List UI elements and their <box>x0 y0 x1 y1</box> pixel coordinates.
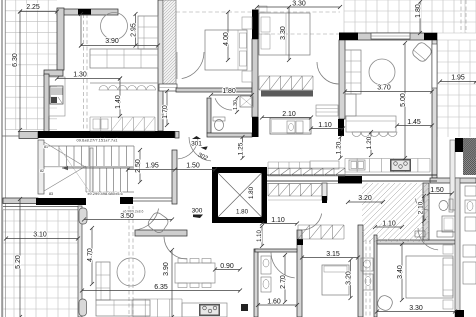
black box right shaft <box>455 138 463 152</box>
dim 1.70 hatch <box>166 91 168 125</box>
bottom-left balcony inner wall <box>78 206 82 317</box>
sofa 300 vertical <box>96 262 110 300</box>
nightstand 303 top <box>443 245 453 254</box>
kitchen side counter 301 <box>49 77 65 116</box>
dashed beam line top-right <box>258 33 432 35</box>
right edge fixtures <box>465 186 476 196</box>
dim 3.30 bottom <box>377 311 455 313</box>
bath303 door arc <box>415 198 429 210</box>
staircase break diagonals <box>44 142 87 168</box>
island counter 302 <box>346 116 396 132</box>
dim 3.40 <box>401 244 403 300</box>
entry door arc 301 <box>178 137 198 159</box>
svg-text:1.45: 1.45 <box>407 119 421 126</box>
right balcony wall <box>432 40 437 178</box>
black wall bedroom divider lower <box>252 117 259 137</box>
round table 302 <box>369 59 395 85</box>
kitchen corner bar <box>44 70 63 76</box>
staircase outline <box>44 145 134 147</box>
svg-text:2.10: 2.10 <box>418 201 425 214</box>
svg-text:3.90: 3.90 <box>105 38 119 45</box>
dashed drop lines left kitchen <box>83 14 85 131</box>
wardrobe rail dark <box>261 91 313 97</box>
armchair 300 <box>146 211 170 235</box>
kitchen counter 300 left <box>133 299 182 317</box>
svg-text:1.10: 1.10 <box>271 217 285 224</box>
kitchen sink 301 <box>93 119 100 129</box>
right band wall <box>430 178 476 183</box>
thin wall hall <box>133 197 172 199</box>
balcony tiles bottom-left <box>3 210 78 317</box>
apartment number 302 <box>196 144 213 163</box>
svg-text:09.6±8.27/7.151±7.7±1: 09.6±8.27/7.151±7.7±1 <box>76 138 118 143</box>
dim 1.50 bath303 <box>429 193 452 195</box>
svg-text:1.80: 1.80 <box>415 4 422 18</box>
stair left wall <box>38 140 44 194</box>
island chairs 302 <box>352 132 361 137</box>
closet bottom-center bedroom <box>298 225 344 239</box>
bathroom303 left wall <box>423 183 429 240</box>
bed 301 <box>205 30 247 70</box>
dim 3.20 hall303 <box>348 201 383 203</box>
dim 3.30 vertical <box>288 7 290 60</box>
staircase lower flight treads <box>86 168 127 192</box>
svg-text:1.60: 1.60 <box>267 299 281 306</box>
door arc bedroom 300 <box>302 214 322 231</box>
stair rail <box>90 148 93 192</box>
door arc 303 entry <box>418 228 438 250</box>
dim 3.30 top <box>257 6 340 8</box>
svg-text:2.10: 2.10 <box>282 111 296 118</box>
black wall living divider lower <box>338 119 344 136</box>
svg-text:1.10: 1.10 <box>382 221 396 228</box>
kitchen counter bottom 301 <box>90 117 155 131</box>
balcony tiles right <box>437 40 476 137</box>
window right balcony <box>432 44 437 88</box>
duct block 2 <box>463 158 476 175</box>
dim 4.00 <box>227 12 229 60</box>
svg-text:2.70: 2.70 <box>280 275 287 289</box>
wall right mid <box>450 140 455 210</box>
dim 1.95 right <box>440 81 476 83</box>
svg-text:1.25: 1.25 <box>238 142 245 155</box>
svg-text:5.00: 5.00 <box>400 93 407 107</box>
balcony tiles top-left <box>5 0 57 130</box>
svg-text:1.40: 1.40 <box>115 95 122 109</box>
svg-text:1.80: 1.80 <box>236 209 249 216</box>
dim 1.10 closet <box>311 128 343 130</box>
svg-text:83: 83 <box>49 192 53 196</box>
stove 300 <box>199 304 220 316</box>
bed 303 headboard <box>443 258 453 296</box>
door arc stair hall <box>135 209 158 230</box>
dim 1.30 small bath1 <box>236 98 238 112</box>
nightstand 301 <box>242 17 252 29</box>
svg-text:1.10: 1.10 <box>257 230 263 242</box>
bath303 shower <box>442 216 455 232</box>
svg-text:2.50: 2.50 <box>135 159 142 173</box>
svg-text:3.15: 3.15 <box>326 251 340 258</box>
dim 0.90 <box>215 269 240 271</box>
wall between bedrooms gray part <box>252 39 258 117</box>
wc room box 302 <box>270 118 311 134</box>
main black wall bar upper <box>38 131 175 138</box>
dim 5.20 <box>19 199 21 317</box>
door arc bedroom 302 <box>317 62 339 84</box>
black wall bar lower left <box>36 198 86 205</box>
svg-text:3.20: 3.20 <box>346 271 353 285</box>
duct crosshatch block right <box>463 138 476 175</box>
dim 1.10 small <box>261 226 263 246</box>
wall left of hatch band <box>158 0 163 131</box>
right living wall <box>339 40 345 119</box>
dim 2.50 <box>139 150 141 182</box>
bedroom303 top wall <box>377 240 455 244</box>
svg-text:3.30: 3.30 <box>409 305 423 312</box>
round table 301 <box>101 13 128 40</box>
dim 1.10 wc303 <box>375 226 402 228</box>
nightstand 302a <box>259 6 267 12</box>
dim 2.70 <box>284 255 286 302</box>
bath300 door arc <box>271 252 295 278</box>
entry door arc 302 <box>189 137 211 161</box>
bar chairs row 301 <box>99 86 108 91</box>
svg-text:1.95: 1.95 <box>451 75 465 82</box>
bath303 toilet <box>449 199 453 212</box>
sofa 302 vertical <box>345 50 361 94</box>
wardrobe 302 <box>259 76 313 90</box>
dim 3.90 table <box>171 250 173 317</box>
dining chairs bottom <box>178 283 187 288</box>
svg-text:3.20: 3.20 <box>358 195 372 202</box>
svg-text:1.95: 1.95 <box>145 163 159 170</box>
dim 1.40 <box>119 79 121 117</box>
toilet 302 <box>213 117 225 121</box>
dim 6.30 left <box>19 12 21 131</box>
dim 1.80 bath1 <box>211 94 252 96</box>
wall left of living A <box>57 8 64 70</box>
dining chairs top <box>178 259 187 264</box>
dim 3.15 bedroom300 <box>302 257 358 259</box>
svg-text:1.30: 1.30 <box>233 100 239 110</box>
wc303 toilet <box>363 274 373 290</box>
svg-text:3.30: 3.30 <box>292 0 306 7</box>
dim 4.70 <box>91 228 93 284</box>
left exterior wall <box>1 0 3 317</box>
black wall between bedrooms top <box>252 10 259 40</box>
nightstand 301 b <box>242 71 252 82</box>
door arc bath1 <box>215 98 232 110</box>
hatch band wall <box>163 0 176 84</box>
dim 1.10 bath300 <box>262 223 297 225</box>
svg-text:2.25: 2.25 <box>26 4 40 11</box>
dashed beam line top-center <box>176 11 340 13</box>
svg-text:82: 82 <box>40 169 44 173</box>
svg-text:4.70: 4.70 <box>87 248 94 262</box>
black tip wall stub <box>322 196 327 203</box>
dim 1.80 top-right <box>419 2 421 33</box>
svg-text:3.40: 3.40 <box>397 265 404 279</box>
kitchen stove icon <box>390 159 411 172</box>
dim 1.45 <box>397 125 432 127</box>
black segment top-left wall <box>78 9 91 15</box>
hall wall gray bar <box>135 230 187 236</box>
wall right of wc 303 <box>374 235 377 317</box>
counter edge 301 <box>90 82 158 84</box>
dim 2.10 wc <box>262 117 311 119</box>
top-left top wall <box>57 9 118 15</box>
bathroom1 left wall <box>207 98 211 133</box>
svg-text:1.10: 1.10 <box>318 122 332 129</box>
kitchen sink 302 <box>349 160 365 170</box>
armchair 302 <box>411 41 434 64</box>
wc303 sink <box>361 258 373 271</box>
svg-text:3.10: 3.10 <box>33 232 47 239</box>
corridor left wall upper <box>172 150 177 204</box>
closet 303 small 2 <box>437 231 453 237</box>
dim 1.30 kitchen <box>57 78 120 80</box>
dim 2.10 bath303 <box>423 196 425 221</box>
pillows bed 302 <box>261 17 270 32</box>
shelf block above corridor <box>310 161 339 169</box>
black block bottom-right <box>455 310 464 317</box>
dim 1.20 b <box>370 132 372 155</box>
svg-text:1.50: 1.50 <box>430 187 444 194</box>
dim 2.25 top-left <box>20 11 57 13</box>
corridor top wall line <box>258 174 437 176</box>
elevator shaft <box>212 167 267 223</box>
svg-text:1.20: 1.20 <box>336 141 343 154</box>
svg-text:3.30: 3.30 <box>280 26 287 40</box>
bathroom1 bottom wall <box>207 133 252 137</box>
sofa 302 corner <box>345 94 356 116</box>
dim 1.25 <box>242 137 244 158</box>
closet shelf mid <box>316 105 338 116</box>
closet row above corridor wall <box>268 168 345 176</box>
bath300 vanity <box>261 256 271 274</box>
kitchen left wall <box>44 74 49 135</box>
window top-right <box>371 33 410 39</box>
apartment number 301 <box>192 136 201 139</box>
stove 301 <box>50 86 63 104</box>
svg-text:81: 81 <box>44 145 48 149</box>
dashed drop lines bottom living <box>128 206 130 317</box>
top-right wall gray <box>340 33 437 40</box>
dashed lines top-right edge <box>460 0 462 33</box>
black corridor segment <box>338 176 362 184</box>
svg-text:300: 300 <box>192 208 203 215</box>
wall bottom-right of bed2 room <box>358 225 363 317</box>
black segment top-right wall right <box>424 33 437 40</box>
dim 3.70 living302 <box>345 91 432 93</box>
kitchen counter row unit302 <box>345 159 430 173</box>
balcony parapet bottom-left <box>3 206 78 208</box>
balcony tiles top-right <box>344 0 476 33</box>
svg-text:6.30: 6.30 <box>12 53 19 67</box>
dashed lines bottom-right bath <box>365 240 367 317</box>
closet 303 small 1 <box>415 231 425 237</box>
dim 3.50 living300 <box>84 219 172 221</box>
svg-text:1.30: 1.30 <box>73 72 87 79</box>
wc fixtures 302 <box>287 121 295 133</box>
nightstand 303 bottom <box>443 300 453 309</box>
svg-text:4.00: 4.00 <box>223 32 230 46</box>
svg-text:1.80: 1.80 <box>222 88 236 95</box>
dim 2.95 <box>135 14 137 46</box>
ottoman 303 <box>376 294 395 313</box>
door leaf 301 <box>176 52 178 79</box>
sofa 300 horizontal <box>96 300 150 316</box>
wall right bedroom <box>455 178 460 317</box>
dim 1.60 bath300b <box>258 304 297 306</box>
balcony end gray bar <box>19 132 38 139</box>
staircase direction arrow <box>62 167 134 169</box>
bed 302 <box>259 13 310 55</box>
gray bar lead-in lower <box>3 198 38 204</box>
wall stub corridor center <box>322 183 327 200</box>
svg-text:3.70: 3.70 <box>377 85 391 92</box>
dining table 300 <box>175 263 215 283</box>
black seg wall bottom-center <box>297 239 303 245</box>
dim 3.20 bedroom300 <box>350 260 352 298</box>
gray stub after bar <box>175 132 179 139</box>
wall bottom-center vertical <box>297 230 302 317</box>
staircase upper flight treads <box>59 146 134 166</box>
svg-text:1.80: 1.80 <box>248 186 255 199</box>
svg-text:6.35: 6.35 <box>154 284 168 291</box>
upper cabinet cells corridor <box>268 162 310 169</box>
dim 5.00 <box>404 43 406 158</box>
svg-text:301: 301 <box>191 141 202 148</box>
round table 300 <box>117 258 145 286</box>
sofa L vertical part <box>138 16 158 49</box>
svg-text:1.70: 1.70 <box>162 105 169 119</box>
black wall bar lower right <box>120 197 133 204</box>
bathroom1 top wall <box>176 88 252 92</box>
right edge fixtures bottom <box>463 245 476 257</box>
bathroom3 left wall <box>254 249 258 317</box>
dim 3.10 balcony <box>6 238 78 240</box>
window box below hatch band <box>159 84 177 91</box>
door arc bedroom 301 <box>182 52 204 79</box>
black segment top-right wall left <box>339 33 358 41</box>
svg-text:3.90: 3.90 <box>163 262 170 276</box>
svg-text:5.20: 5.20 <box>15 255 22 269</box>
column pill 1 <box>79 208 87 224</box>
bath300 toilet <box>261 277 271 292</box>
bed 303 <box>406 256 453 298</box>
svg-text:3.50: 3.50 <box>120 213 134 220</box>
bed 300 <box>322 265 349 295</box>
dim 6.35 <box>82 290 240 292</box>
bathroom3 top wall <box>255 249 297 252</box>
column pill 2 <box>79 299 87 316</box>
svg-text:2.95: 2.95 <box>131 23 138 37</box>
svg-text:±9.299.498.680±5.6: ±9.299.498.680±5.6 <box>87 191 123 196</box>
door arc hall to living 300 <box>164 237 187 259</box>
svg-text:0.90: 0.90 <box>220 263 234 270</box>
dim 1.20 a <box>340 137 342 158</box>
closet row left below corridor <box>268 184 322 197</box>
kitchen counter 300 right <box>182 303 227 317</box>
svg-text:1.20: 1.20 <box>366 136 373 149</box>
dark fixture bath3 <box>241 304 248 311</box>
dim 1.95 1.50 hall <box>128 169 215 171</box>
sofa L horizontal part <box>90 49 158 68</box>
svg-text:1.50: 1.50 <box>186 163 200 170</box>
shower 302 <box>240 96 253 107</box>
dim 3.90 living <box>81 45 158 47</box>
